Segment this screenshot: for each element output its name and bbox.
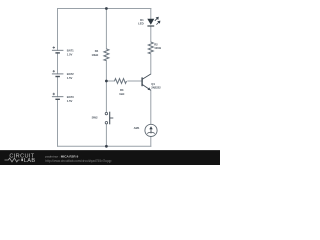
svg-text:1.5V: 1.5V — [67, 76, 73, 80]
svg-text:1kΩ: 1kΩ — [119, 92, 125, 96]
svg-text:AM1: AM1 — [134, 126, 140, 130]
svg-text:padminor : MICA R2R 9: padminor : MICA R2R 9 — [45, 154, 78, 158]
svg-text:LED: LED — [138, 22, 143, 26]
svg-text:1.5V: 1.5V — [67, 99, 73, 103]
svg-text:SW2: SW2 — [92, 115, 98, 119]
svg-text:2N2222: 2N2222 — [151, 86, 161, 90]
svg-text:10kΩ: 10kΩ — [91, 53, 99, 57]
svg-text:LAB: LAB — [24, 158, 35, 164]
svg-text:1.5V: 1.5V — [67, 53, 73, 57]
svg-text:http://www.circuitlab.com/circ: http://www.circuitlab.com/circuit/qad755… — [45, 159, 111, 163]
svg-text:100Ω: 100Ω — [154, 46, 162, 50]
